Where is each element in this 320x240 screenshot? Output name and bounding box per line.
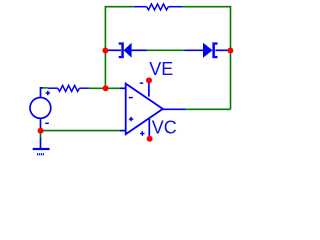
op-amp positive supply plus sign bbox=[140, 131, 144, 135]
wire resistor R2 to inverting node bbox=[89, 87, 119, 89]
wire ground node to non-inverting input bbox=[41, 130, 120, 132]
junction right diode node bbox=[227, 48, 233, 54]
op-amp non-inverting mark bbox=[129, 117, 133, 121]
junction left diode node bbox=[102, 48, 108, 54]
svg-text:VE: VE bbox=[149, 59, 173, 79]
op-amp inverting mark bbox=[129, 97, 133, 99]
wire output to right rail bbox=[185, 108, 230, 110]
op-amp positive supply pin VC bbox=[148, 119, 150, 139]
voltage source VG1 bbox=[30, 88, 51, 129]
wire between diodes bbox=[147, 49, 184, 51]
op-amp output lead bbox=[163, 108, 186, 110]
op-amp non-inverting input lead bbox=[120, 130, 126, 132]
terminal dot VE bbox=[146, 77, 152, 83]
wire source to resistor R2 bbox=[43, 87, 48, 89]
resistor R2 (input) bbox=[48, 85, 89, 91]
terminal dot VC bbox=[147, 136, 153, 142]
junction source ground node bbox=[38, 128, 44, 134]
ground symbol bbox=[33, 132, 50, 154]
wire top rail left segment bbox=[105, 7, 133, 51]
wire top rail right segment bbox=[183, 7, 231, 110]
voltage source plus sign bbox=[46, 91, 51, 96]
op-amp inverting input lead bbox=[120, 87, 126, 89]
svg-text:VC: VC bbox=[152, 118, 177, 138]
junction inverting input node bbox=[103, 85, 109, 91]
resistor R1 (feedback, top) bbox=[134, 4, 183, 10]
diode D1 (left, cathode to left node) bbox=[107, 42, 147, 58]
wire left vertical to inverting node bbox=[104, 51, 106, 89]
op-amp negative supply pin VE bbox=[148, 80, 150, 96]
voltage source minus sign bbox=[45, 122, 49, 124]
diode D2 (right, cathode to right node) bbox=[184, 42, 229, 58]
op-amp negative supply minus sign bbox=[140, 82, 143, 84]
op-amp U1 body bbox=[126, 84, 163, 135]
